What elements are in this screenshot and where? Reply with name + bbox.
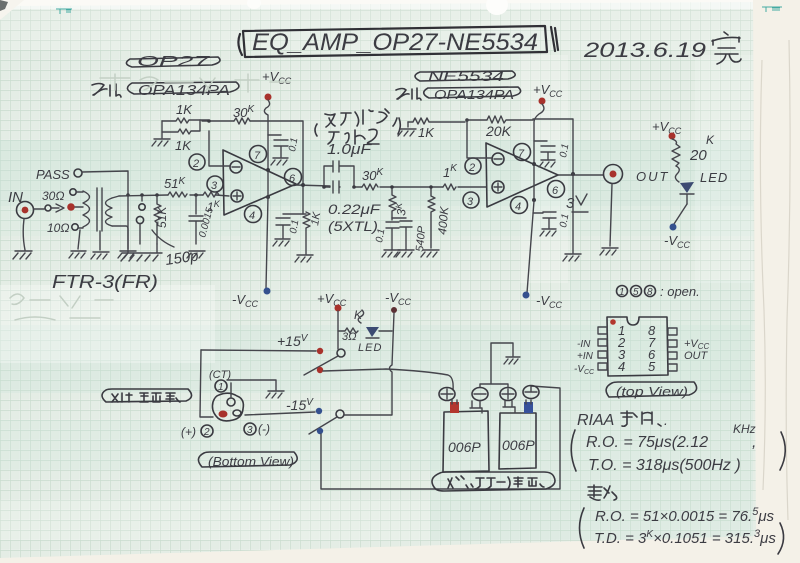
- input arrow and dot: [34, 203, 83, 212]
- ground r1kout: [295, 255, 313, 262]
- labels -IN +IN -Vcc: [574, 339, 595, 376]
- -Vcc stage1: [232, 288, 271, 310]
- terminal plus B1: [439, 388, 455, 401]
- formula TD measured: [594, 528, 776, 547]
- terminal plus B2: [500, 388, 516, 401]
- label mata-ha 2: [396, 88, 421, 100]
- ground xfmr core: [91, 252, 109, 259]
- ground c01b: [273, 239, 290, 246]
- svg-text:20K: 20K: [485, 123, 512, 139]
- wire pin4 to -Vcc: [266, 197, 268, 288]
- svg-text:LED: LED: [358, 342, 382, 354]
- IC body DIP8: [607, 317, 668, 376]
- wire ext left drop: [200, 350, 213, 417]
- LED D2: [358, 327, 392, 354]
- resistor 1K fb ground leg: [408, 118, 465, 140]
- svg-text:1K: 1K: [418, 125, 435, 140]
- capacitor 0.1 under 3K: [374, 218, 399, 250]
- wire output gnd leg: [572, 174, 574, 253]
- svg-text:-IN: -IN: [577, 339, 591, 350]
- svg-text:OPA134PA: OPA134PA: [138, 82, 230, 99]
- kanji kan: [712, 32, 741, 64]
- label gaibu dengen (ext supply) stadium: [102, 389, 192, 402]
- ground taps: [69, 251, 86, 258]
- svg-text:2: 2: [468, 162, 475, 174]
- svg-text:3Ω: 3Ω: [342, 331, 357, 343]
- -Vcc bottom: [385, 290, 411, 412]
- capacitor 0.1 stage2 top: [534, 141, 571, 160]
- -Vcc LED: [664, 224, 690, 251]
- switch SW lower: [309, 408, 344, 434]
- resistor 30K feedback: [233, 104, 255, 124]
- pin 2 circle U2: [465, 158, 481, 174]
- pin 4 circle U2: [511, 197, 528, 214]
- terminal PASS: [74, 169, 82, 177]
- label metalized film (katakana scribble): [315, 109, 400, 144]
- wire PASS to node: [82, 171, 128, 195]
- wire CT to ground: [227, 380, 276, 397]
- svg-text:OUT: OUT: [636, 169, 669, 184]
- resistor 1K b: [162, 120, 200, 153]
- formula RO 75us: [586, 422, 756, 451]
- svg-text:NE5534: NE5534: [428, 68, 504, 84]
- formula RO measured: [595, 506, 775, 525]
- wire feedback rail to output: [250, 121, 303, 214]
- big paren right 2: [778, 523, 784, 554]
- red snap B1: [450, 400, 459, 413]
- svg-text:1: 1: [619, 287, 625, 298]
- wire output stage2: [558, 174, 603, 176]
- label (+)2: [181, 425, 213, 439]
- svg-text:OP27: OP27: [137, 53, 210, 70]
- svg-text:8: 8: [647, 287, 653, 298]
- right strip creases: [760, 40, 790, 520]
- wire 1K pair left to ground: [161, 121, 163, 138]
- ground CT: [266, 391, 284, 398]
- svg-text:4: 4: [515, 201, 521, 213]
- +Vcc bottom: [317, 291, 347, 349]
- label 1 5 8 open: [617, 284, 700, 299]
- svg-text:7: 7: [254, 150, 261, 162]
- capacitor 0.1 stage1 bottom: [276, 214, 303, 238]
- ground r51kshunt: [156, 244, 158, 253]
- svg-text:: open.: : open.: [660, 284, 700, 299]
- battery B1: [443, 411, 489, 472]
- resistor 20K led: [672, 133, 715, 166]
- svg-text:4: 4: [249, 210, 255, 222]
- svg-text:10Ω: 10Ω: [47, 221, 69, 235]
- svg-text:EQ_AMP_OP27-NE5534: EQ_AMP_OP27-NE5534: [252, 29, 538, 56]
- battery B2: [499, 413, 536, 469]
- ground sw1: [121, 195, 162, 261]
- op-amp U2 triangle: [486, 143, 558, 207]
- svg-text:1K: 1K: [309, 211, 323, 227]
- svg-text:1.0μF: 1.0μF: [327, 141, 372, 158]
- +Vcc stage1: [262, 69, 292, 135]
- label 3(-): [244, 422, 270, 436]
- teal logo left: [56, 9, 72, 14]
- svg-text:RIAA: RIAA: [577, 412, 614, 429]
- ground secondary: [118, 251, 136, 258]
- svg-text:(Bottom View): (Bottom View): [208, 454, 294, 469]
- svg-text:R.O. = 51×0.0015 = 76.5μs: R.O. = 51×0.0015 = 76.5μs: [595, 506, 775, 525]
- label OPA134PA 2: [424, 87, 521, 102]
- svg-text:1K: 1K: [175, 138, 192, 153]
- svg-text:6: 6: [552, 185, 559, 197]
- resistor 3K led2: [338, 308, 364, 343]
- ground c540: [396, 250, 414, 257]
- ground r400k: [421, 250, 439, 257]
- capacitor 540p: [392, 218, 428, 252]
- svg-text:3: 3: [467, 196, 474, 208]
- big paren left 2: [580, 508, 585, 548]
- wire LED down: [674, 204, 687, 224]
- snap stub minus B1: [470, 401, 482, 413]
- label mata-ha (or): [92, 84, 121, 98]
- wire main line: [324, 186, 486, 188]
- wire -Vcc to sw common: [344, 412, 392, 415]
- svg-text:6: 6: [289, 173, 296, 185]
- svg-text:006P: 006P: [448, 439, 481, 455]
- wiggle to LED: [675, 166, 679, 182]
- transformer primary taps: [70, 189, 83, 249]
- label OP27: [126, 53, 220, 70]
- label RIAA spec: [577, 411, 668, 429]
- big paren left 1: [571, 430, 576, 471]
- ground c01a: [271, 158, 288, 165]
- svg-text:5: 5: [633, 287, 639, 298]
- label Bottom View stadium: [198, 452, 297, 469]
- -Vcc stage2: [523, 292, 563, 311]
- pin 3 circle: [207, 176, 223, 192]
- ground battery CT: [504, 357, 520, 364]
- punch hole white blobs: [247, 0, 508, 15]
- wire node to pin2 drop: [202, 120, 234, 122]
- corner mark: [0, 0, 8, 11]
- ground c0015: [187, 251, 205, 258]
- faint erased ghost text: [10, 74, 290, 320]
- resistor 400K shunt: [428, 185, 452, 248]
- svg-text:.: .: [664, 412, 668, 428]
- svg-text:4: 4: [618, 359, 625, 374]
- svg-text:(+): (+): [181, 425, 196, 439]
- resistor 1K a: [162, 102, 208, 123]
- op-amp U1 triangle: [223, 150, 296, 215]
- svg-text:OUT: OUT: [684, 350, 709, 362]
- ground c01c: [539, 160, 555, 167]
- snap stub plus B2: [503, 401, 515, 412]
- terminal minus B2: [523, 386, 539, 399]
- svg-text:2013.6.19: 2013.6.19: [583, 39, 707, 62]
- ground OUT: [600, 248, 618, 255]
- capacitor 0.22uF in line: [329, 181, 340, 193]
- svg-text:FTR-3(FR): FTR-3(FR): [52, 272, 158, 292]
- label 3V marking: [566, 194, 588, 212]
- svg-text:3: 3: [211, 180, 218, 192]
- svg-text:2: 2: [203, 427, 210, 438]
- teal logo right: [762, 7, 782, 12]
- ground fb 1K: [398, 122, 416, 136]
- ground c01mid: [382, 250, 400, 257]
- svg-text:400K: 400K: [435, 205, 451, 235]
- capacitor 1.0uF film loop: [322, 161, 356, 189]
- pin numbers left: [617, 323, 626, 374]
- transformer T1: [83, 188, 128, 250]
- pin stubs right: [668, 328, 677, 371]
- labels +Vcc OUT: [684, 338, 710, 362]
- capacitor 0.1 stage1 top: [268, 135, 300, 157]
- svg-text:(top View): (top View): [616, 384, 688, 399]
- svg-text:(-): (-): [258, 422, 270, 436]
- wire inv input: [209, 131, 230, 166]
- switch SW upper: [304, 348, 345, 375]
- resistor 51K shunt: [154, 196, 169, 244]
- ground IN: [13, 219, 32, 259]
- resistor 20K feedback: [467, 116, 533, 139]
- pin stubs left: [598, 327, 607, 370]
- svg-text:T.D. = 3K×0.1051 = 315.3μs: T.D. = 3K×0.1051 = 315.3μs: [594, 528, 776, 547]
- wire secondary to opamp input: [119, 195, 229, 196]
- svg-text:+IN: +IN: [577, 351, 594, 362]
- wire pin4 down: [527, 201, 534, 293]
- wire output: [296, 185, 330, 186]
- ground 1K pair: [152, 139, 170, 146]
- svg-text:7: 7: [518, 148, 525, 160]
- svg-text:1: 1: [218, 382, 224, 393]
- capacitor 0.0015: [189, 195, 216, 244]
- resistor 30K series: [362, 167, 384, 190]
- label battery supply stadium: [432, 472, 555, 491]
- svg-text:006P: 006P: [502, 437, 535, 453]
- svg-text:K: K: [706, 133, 715, 147]
- +Vcc stage2: [532, 82, 563, 202]
- date 2013.6.19: [583, 32, 741, 64]
- svg-text:1K: 1K: [176, 102, 193, 117]
- switch S1 to ground: [136, 196, 145, 244]
- svg-text:OPA134PA: OPA134PA: [434, 87, 514, 102]
- pin1 circle ext: [215, 380, 227, 393]
- svg-text:51K: 51K: [155, 206, 169, 228]
- wire battery minus loop: [321, 386, 560, 489]
- svg-text:,: ,: [752, 434, 756, 451]
- connector J1 ext power: [212, 393, 243, 421]
- terminal minus B1: [472, 388, 488, 401]
- svg-text:R.O. = 75μs(2.12: R.O. = 75μs(2.12: [586, 434, 708, 451]
- wire fb rail to output: [533, 119, 573, 174]
- resistor 1K series: [203, 192, 221, 214]
- label NE5534: [415, 68, 515, 84]
- svg-text:T.O. = 318μs(500Hz ): T.O. = 318μs(500Hz ): [588, 457, 741, 474]
- wire +15 rail: [201, 350, 316, 351]
- LED D1: [680, 170, 728, 204]
- wire ext to sw lower: [245, 412, 315, 415]
- switch lever curve: [152, 230, 174, 247]
- svg-text:20: 20: [689, 147, 707, 164]
- svg-text:(CT): (CT): [209, 369, 231, 381]
- svg-text:0.22μF: 0.22μF: [328, 201, 382, 217]
- pin 2 circle: [189, 154, 205, 170]
- terminal OUT: [604, 165, 623, 247]
- wire vcc through opamp to pin4: [267, 135, 269, 197]
- label OPA134PA: [127, 82, 238, 99]
- pin 4 circle: [245, 206, 262, 223]
- resistor 1K series stage2: [443, 163, 458, 190]
- pin 6 circle: [285, 169, 302, 186]
- svg-text:540P: 540P: [414, 225, 428, 252]
- wire battery plus feed: [323, 369, 453, 390]
- svg-text:LED: LED: [700, 170, 728, 185]
- ground out leg: [563, 254, 581, 261]
- svg-text:3: 3: [247, 425, 253, 436]
- node pass junction: [126, 193, 130, 197]
- wire fb node to inv input: [467, 120, 491, 158]
- wire center tap batteries: [480, 343, 513, 387]
- label jissoku (measured): [588, 485, 617, 500]
- svg-text:5: 5: [648, 359, 656, 374]
- svg-text:2: 2: [192, 158, 199, 170]
- +Vcc LED: [652, 119, 682, 140]
- title box: [238, 26, 558, 57]
- pin 3 circle U2: [463, 192, 479, 208]
- svg-text:30Ω: 30Ω: [42, 189, 64, 203]
- resistor 1K to ground from output: [303, 211, 323, 254]
- blue snap B2: [524, 400, 533, 413]
- resistor 51K series: [164, 176, 187, 197]
- capacitor 0.1 stage2 bottom: [533, 212, 571, 229]
- svg-text:PASS: PASS: [36, 167, 70, 182]
- ground c01d: [540, 229, 556, 236]
- resistor 3K shunt: [389, 185, 409, 218]
- label top view stadium: [606, 382, 696, 399]
- terminal IN: [17, 202, 34, 219]
- pin 6 circle U2: [548, 181, 565, 198]
- pin 7 circle: [250, 146, 267, 163]
- pin numbers right: [648, 323, 656, 374]
- big paren right 1: [780, 432, 785, 470]
- pin 7 circle U2: [514, 144, 531, 161]
- svg-text:(5XTL): (5XTL): [328, 218, 378, 234]
